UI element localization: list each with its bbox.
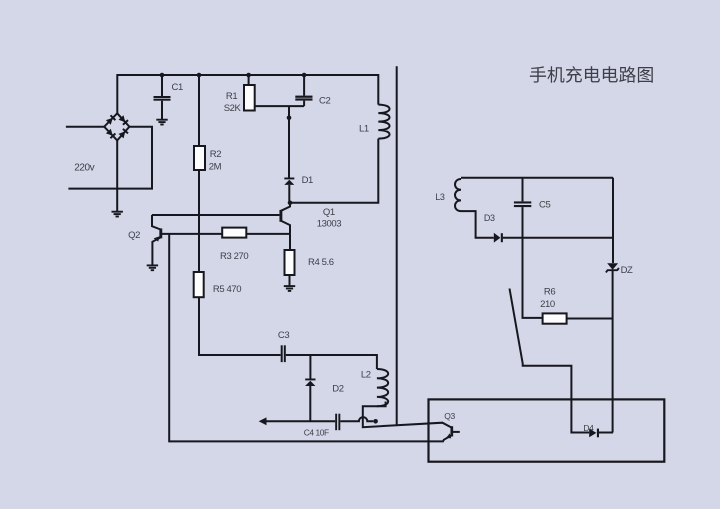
svg-text:L2: L2 — [361, 369, 371, 380]
svg-text:Q3: Q3 — [444, 411, 455, 421]
svg-text:C5: C5 — [539, 200, 550, 211]
svg-text:Q1: Q1 — [323, 207, 335, 218]
svg-text:D3: D3 — [484, 213, 495, 223]
svg-text:S2K: S2K — [224, 103, 242, 114]
svg-text:210: 210 — [540, 299, 555, 310]
svg-text:L3: L3 — [435, 192, 445, 202]
svg-text:D2: D2 — [332, 384, 343, 395]
svg-text:C1: C1 — [172, 82, 183, 93]
svg-text:R3 270: R3 270 — [220, 251, 248, 262]
svg-text:2M: 2M — [209, 161, 222, 172]
svg-text:D1: D1 — [302, 175, 313, 186]
svg-text:C4 10F: C4 10F — [304, 427, 329, 437]
svg-text:C2: C2 — [319, 96, 330, 107]
svg-text:R1: R1 — [226, 91, 237, 102]
svg-text:C3: C3 — [278, 330, 289, 341]
svg-text:R4 5.6: R4 5.6 — [308, 257, 334, 268]
svg-text:D4: D4 — [583, 423, 594, 433]
svg-text:R2: R2 — [210, 149, 221, 160]
svg-text:Q2: Q2 — [128, 230, 140, 241]
svg-text:13003: 13003 — [317, 218, 342, 229]
svg-text:220v: 220v — [74, 162, 94, 173]
svg-text:DZ: DZ — [621, 265, 633, 276]
svg-text:L1: L1 — [359, 124, 369, 135]
svg-text:R6: R6 — [544, 287, 555, 298]
svg-text:R5 470: R5 470 — [213, 284, 241, 295]
